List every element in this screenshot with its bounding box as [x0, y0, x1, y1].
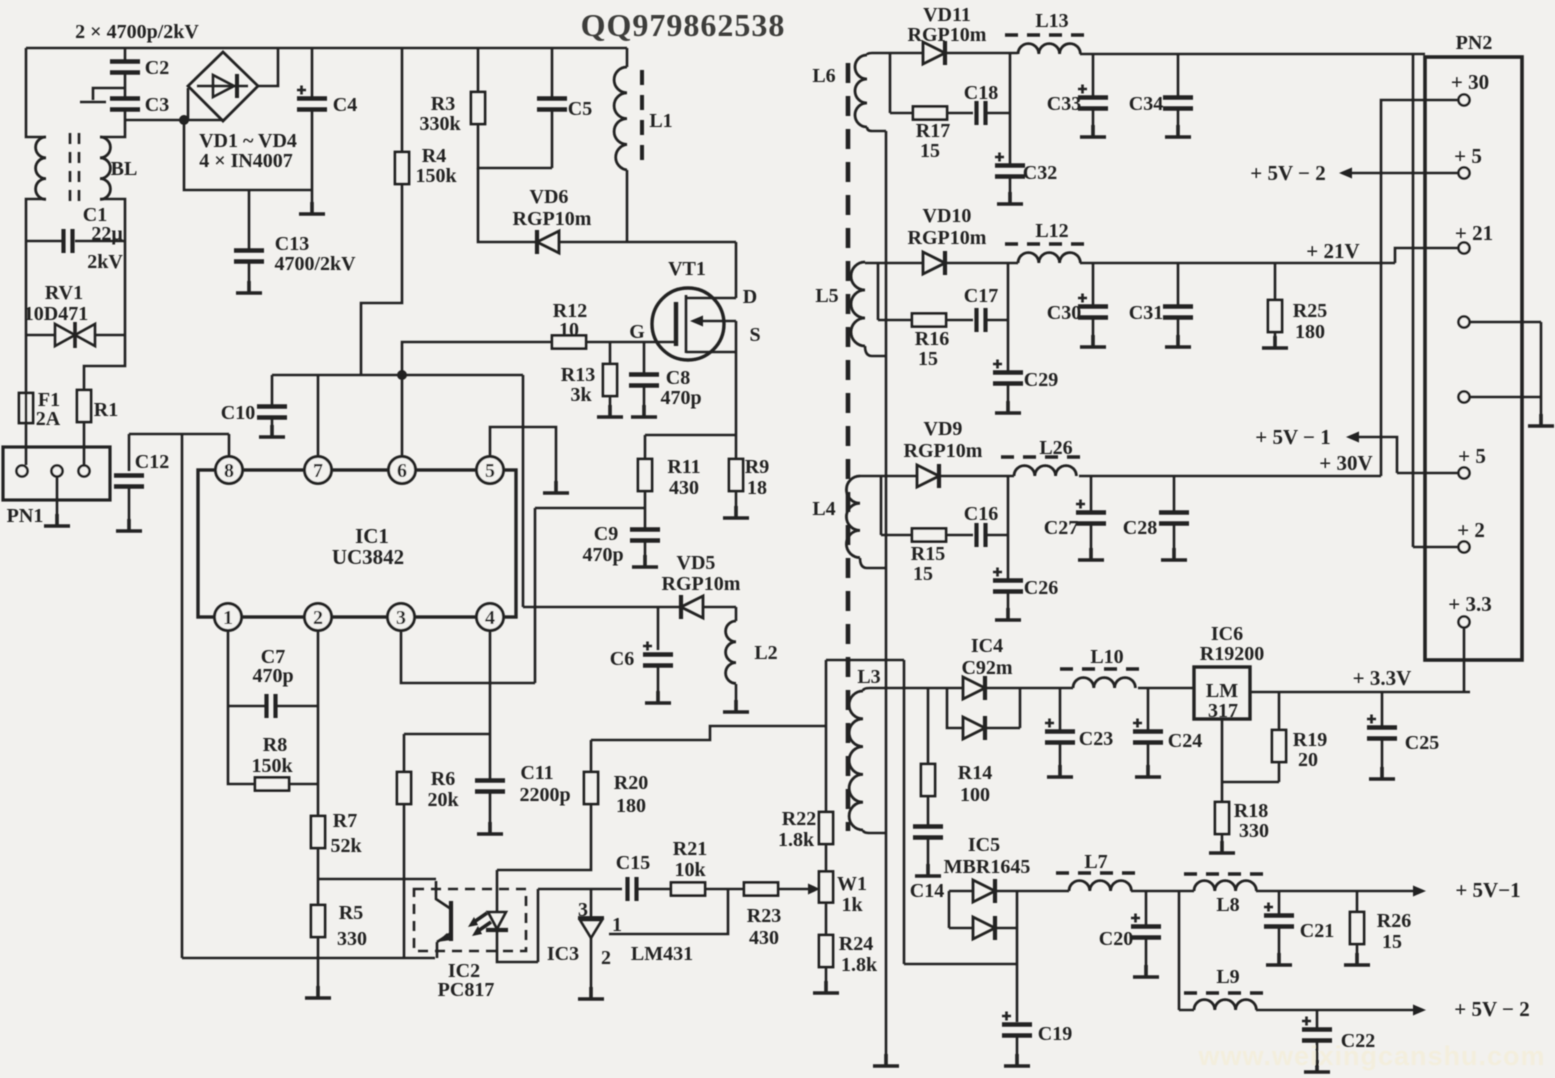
- capacitor C24: [1147, 688, 1150, 731]
- svg-text:L12: L12: [1035, 220, 1068, 242]
- capacitor C20: [1145, 891, 1148, 926]
- resistor R13: [609, 342, 612, 364]
- svg-text:R6: R6: [431, 768, 455, 790]
- resistor R3: [477, 48, 480, 92]
- capacitor C5: [551, 48, 554, 98]
- pin 6: [389, 457, 416, 484]
- svg-text:R24: R24: [839, 933, 873, 955]
- optocoupler IC2 PC817 dashed box: [414, 889, 526, 951]
- wire: +5V-1 takeoff: [1359, 437, 1458, 473]
- light arrows of IC2: [474, 913, 491, 931]
- wire: R11 bottom to C9 row: [535, 491, 645, 529]
- svg-text:PN1: PN1: [7, 505, 44, 527]
- svg-text:UC3842: UC3842: [332, 545, 404, 569]
- ground below C12: [116, 519, 142, 531]
- resistor R8: [255, 778, 289, 791]
- ground below C28: [1161, 548, 1187, 560]
- ground below C9: [632, 555, 658, 567]
- wire: L7 output row: [1131, 890, 1194, 893]
- capacitor C23: [1059, 688, 1062, 731]
- capacitor C34: [1177, 54, 1180, 97]
- wire: bridge + output riser: [258, 48, 278, 86]
- svg-text:C33: C33: [1047, 93, 1081, 115]
- svg-text:8: 8: [224, 460, 234, 482]
- capacitor C9: [630, 530, 660, 541]
- capacitor C18: [977, 101, 986, 125]
- resistor R7: [311, 816, 325, 848]
- svg-text:LM431: LM431: [631, 943, 693, 965]
- svg-text:330: 330: [337, 928, 367, 950]
- resistor R9: [729, 459, 743, 491]
- capacitor C12: [128, 434, 131, 471]
- ground below C20: [1133, 965, 1159, 977]
- transformer core dashes: [846, 63, 851, 831]
- ground below C26: [995, 608, 1021, 620]
- svg-text:C19: C19: [1038, 1023, 1072, 1045]
- svg-text:C6: C6: [610, 648, 634, 670]
- wire: L6 bottom to bus: [867, 127, 886, 131]
- wire: VD6 to drain riser: [559, 242, 736, 298]
- wire: VCC row pin7: [272, 374, 523, 377]
- pin 7: [305, 457, 332, 484]
- PN2 pin +21: [1459, 243, 1470, 254]
- svg-text:C9: C9: [594, 523, 618, 545]
- svg-text:+ 2: + 2: [1457, 518, 1485, 542]
- svg-text:L5: L5: [815, 285, 838, 307]
- svg-text:VD1 ~ VD4: VD1 ~ VD4: [199, 130, 297, 152]
- capacitor C10: [271, 375, 274, 406]
- svg-text:R25: R25: [1293, 300, 1327, 322]
- wire: R7 to R5 with feedback row: [318, 848, 436, 905]
- ground below C4: [299, 202, 325, 214]
- ground below C31: [1165, 335, 1191, 347]
- wire: L9 feed riser: [1179, 891, 1194, 1010]
- resistor R26: [1356, 891, 1359, 912]
- wire: R15 to C16: [946, 534, 973, 537]
- svg-text:1k: 1k: [841, 894, 863, 916]
- svg-text:L7: L7: [1084, 851, 1107, 873]
- winding L3: [849, 691, 863, 830]
- svg-text:2kV: 2kV: [87, 251, 123, 273]
- svg-text:RGP10m: RGP10m: [908, 24, 987, 46]
- svg-text:RGP10m: RGP10m: [662, 573, 741, 595]
- ground below C14: [915, 864, 941, 876]
- PN2 pin +2: [1459, 542, 1470, 553]
- inductor L26: [1014, 466, 1076, 476]
- wire: LM317 output +3.3V row: [1250, 691, 1470, 694]
- wire: L6 top row to VD11: [867, 53, 923, 55]
- ground below C24: [1135, 765, 1161, 777]
- svg-text:+ 5V−1: + 5V−1: [1455, 878, 1520, 902]
- wire: pin 5 ground route: [490, 427, 556, 491]
- wire: L5 bottom to bus: [865, 346, 886, 356]
- LED of IC2: [496, 870, 499, 912]
- svg-text:VD10: VD10: [923, 205, 972, 227]
- wire: gate row from dot: [402, 342, 552, 375]
- winding L6: [855, 55, 867, 127]
- svg-text:C92m: C92m: [961, 657, 1012, 679]
- resistor R6: [397, 772, 411, 804]
- dual diode IC4 lower branch: [947, 688, 963, 728]
- pin 2: [305, 604, 332, 631]
- svg-text:R20: R20: [614, 772, 648, 794]
- ground below R26: [1344, 953, 1370, 965]
- capacitor C19: [1002, 1012, 1032, 1036]
- svg-text:C26: C26: [1024, 577, 1058, 599]
- wire: TL431 cathode row: [538, 888, 622, 891]
- svg-text:1.8k: 1.8k: [778, 829, 815, 851]
- wire: left input rail upper: [26, 48, 46, 137]
- capacitor C33: [1092, 54, 1095, 97]
- svg-text:C12: C12: [135, 451, 169, 473]
- svg-text:+ 5V − 2: + 5V − 2: [1250, 161, 1325, 185]
- svg-text:C23: C23: [1079, 728, 1113, 750]
- wire: pin 3 riser to row: [401, 631, 535, 683]
- ground below IC3: [578, 987, 604, 999]
- resistor R14: [927, 688, 930, 764]
- svg-text:R19: R19: [1293, 729, 1327, 751]
- inductor L2: [726, 621, 736, 683]
- capacitor C4: [311, 48, 314, 98]
- svg-text:+ 5V − 2: + 5V − 2: [1454, 997, 1529, 1021]
- wire: primary bottom bus: [182, 957, 435, 960]
- inductor L12: [1018, 253, 1080, 263]
- svg-text:C14: C14: [910, 880, 944, 902]
- wire: R23 to W1 wiper: [778, 888, 808, 891]
- svg-text:PC817: PC817: [438, 979, 495, 1001]
- capacitor C25: [1381, 692, 1384, 727]
- wire: +21V row: [1080, 248, 1458, 263]
- svg-text:R18: R18: [1234, 800, 1268, 822]
- wire: R24 to ground: [825, 967, 828, 991]
- diode VD6 RGP10m: [537, 230, 559, 254]
- wire: IC5 output row to L7: [995, 890, 1069, 893]
- svg-text:+ 30V: + 30V: [1319, 451, 1372, 475]
- svg-text:L26: L26: [1039, 437, 1072, 459]
- svg-text:VD9: VD9: [924, 418, 963, 440]
- svg-text:2200p: 2200p: [519, 784, 570, 806]
- wire: L3 feedback top link: [591, 660, 826, 740]
- diode VD11 RGP10m: [923, 41, 945, 65]
- wire: R6 down to bus: [403, 804, 406, 958]
- wire: C16 to post node: [986, 476, 1008, 580]
- wire: pin 2 column: [317, 631, 320, 816]
- capacitor C21: [1278, 891, 1281, 915]
- wire: pin1 column to R8: [228, 706, 254, 784]
- wire: VD11 out to L13: [945, 52, 1018, 55]
- svg-text:C21: C21: [1300, 920, 1334, 942]
- svg-text:15: 15: [918, 348, 938, 370]
- svg-text:7: 7: [313, 460, 323, 482]
- svg-text:R22: R22: [782, 808, 816, 830]
- svg-text:C27: C27: [1044, 517, 1078, 539]
- svg-text:52k: 52k: [330, 835, 362, 857]
- wire: BL left bottom: [26, 199, 46, 241]
- resistor R18: [1215, 802, 1229, 834]
- svg-text:R19200: R19200: [1200, 643, 1264, 665]
- ground below C10: [259, 425, 285, 437]
- svg-text:180: 180: [1295, 321, 1325, 343]
- wire: R20 bottom to LED anode: [497, 804, 591, 870]
- ground below C23: [1047, 765, 1073, 777]
- svg-text:+ 21V: + 21V: [1306, 239, 1359, 263]
- svg-text:10: 10: [559, 319, 579, 341]
- wire: L13 output row: [1080, 53, 1425, 56]
- wire: long drop to primary ground bus: [181, 434, 184, 958]
- svg-text:+ 30: + 30: [1451, 70, 1489, 94]
- svg-text:BL: BL: [111, 158, 138, 180]
- wire: R4 branch into VCC row: [361, 184, 402, 375]
- capacitor C2: [124, 48, 127, 61]
- svg-text:C3: C3: [145, 94, 169, 116]
- diode VD9 RGP10m: [917, 464, 939, 488]
- inductor L9: [1194, 1000, 1256, 1010]
- svg-text:VD11: VD11: [923, 4, 971, 26]
- capacitor C22: [1316, 1010, 1319, 1029]
- wire: C17 to post node: [986, 263, 1008, 372]
- svg-text:VD6: VD6: [530, 186, 569, 208]
- svg-text:C10: C10: [221, 402, 255, 424]
- wire: L5 top row: [865, 262, 923, 265]
- capacitor C28: [1173, 476, 1176, 512]
- svg-text:IC6: IC6: [1211, 623, 1243, 645]
- L1 core dashes: [640, 70, 644, 166]
- resistor R24: [825, 902, 828, 935]
- svg-text:22μ: 22μ: [91, 223, 123, 245]
- wire: L3 alcove link: [826, 660, 904, 688]
- wire: C3 to bridge AC node: [125, 110, 224, 120]
- svg-text:L8: L8: [1216, 894, 1239, 916]
- svg-text:R13: R13: [561, 364, 595, 386]
- connector PN2: [1425, 57, 1522, 660]
- svg-text:IC5: IC5: [968, 834, 1000, 856]
- svg-text:R17: R17: [916, 120, 950, 142]
- capacitor C11: [475, 781, 505, 792]
- svg-text:2 × 4700p/2kV: 2 × 4700p/2kV: [75, 21, 199, 43]
- dual schottky IC5 lower: [949, 927, 973, 930]
- svg-text:C15: C15: [616, 852, 650, 874]
- pin 3: [388, 604, 415, 631]
- svg-text:+ 21: + 21: [1455, 221, 1493, 245]
- svg-text:C2: C2: [145, 57, 169, 79]
- inductor BL left winding: [36, 137, 46, 199]
- wire: VCC branch down to VD5 row: [522, 375, 525, 607]
- inductor BL right winding: [100, 120, 125, 137]
- wire: +2 rail riser: [1413, 54, 1458, 547]
- svg-text:L13: L13: [1035, 10, 1068, 32]
- resistor R4: [401, 48, 404, 152]
- svg-text:VD5: VD5: [677, 552, 716, 574]
- svg-text:C16: C16: [964, 503, 998, 525]
- wire: +5V-2 takeoff: [1352, 172, 1458, 175]
- svg-text:VT1: VT1: [668, 258, 706, 280]
- resistor R21: [671, 883, 705, 896]
- svg-text:4: 4: [485, 607, 495, 629]
- ground below PN1 middle pin: [56, 477, 59, 524]
- ground below C19: [1004, 1054, 1030, 1066]
- resistor R16: [912, 314, 946, 327]
- diode VD10 RGP10m: [923, 251, 945, 275]
- ground below C27: [1078, 548, 1104, 560]
- BL core dashes: [70, 133, 79, 203]
- wire: C19 riser: [1016, 891, 1019, 1022]
- svg-text:R26: R26: [1377, 910, 1411, 932]
- ground below C22: [1304, 1060, 1330, 1072]
- ground below R25: [1262, 336, 1288, 348]
- wire: R6 top row: [404, 734, 490, 772]
- ground below R9: [723, 506, 749, 518]
- svg-text:20: 20: [1298, 749, 1318, 771]
- wire: +3.3 pin drop: [1463, 628, 1466, 692]
- svg-text:C34: C34: [1129, 93, 1163, 115]
- winding L5: [851, 262, 865, 346]
- transistor VT1 MOSFET: [652, 288, 724, 360]
- wire: pin 6 riser: [401, 375, 404, 456]
- svg-text:L6: L6: [812, 65, 835, 87]
- svg-text:L4: L4: [812, 498, 835, 520]
- ground below C30: [1080, 335, 1106, 347]
- capacitor C30: [1092, 263, 1095, 306]
- svg-text:R8: R8: [263, 734, 287, 756]
- inductor L8: [1194, 881, 1256, 891]
- wire: C9 row riser down to pin3 row: [534, 508, 537, 683]
- svg-text:10D471: 10D471: [24, 303, 88, 325]
- capacitor C32: [995, 153, 1025, 177]
- capacitor C13: [248, 190, 251, 250]
- svg-text:2: 2: [601, 947, 611, 969]
- ground below C34: [1165, 125, 1191, 137]
- svg-text:C28: C28: [1123, 517, 1157, 539]
- wire: C12 row to pin 8: [129, 434, 229, 456]
- svg-text:4700/2kV: 4700/2kV: [274, 253, 356, 275]
- svg-text:2: 2: [313, 607, 323, 629]
- svg-text:2A: 2A: [36, 408, 61, 430]
- svg-text:RGP10m: RGP10m: [908, 227, 987, 249]
- svg-text:C8: C8: [666, 367, 690, 389]
- wire: pin 1 column: [227, 631, 230, 706]
- svg-text:C29: C29: [1024, 369, 1058, 391]
- wire: +30V row: [1079, 100, 1458, 476]
- svg-text:L9: L9: [1216, 966, 1239, 988]
- ground below C21: [1266, 953, 1292, 965]
- wire: primary top +310V rail: [26, 47, 627, 50]
- svg-text:1: 1: [612, 914, 622, 936]
- svg-text:470p: 470p: [660, 387, 701, 409]
- shunt regulator IC3 LM431: [590, 889, 593, 918]
- inductor L10: [1073, 678, 1135, 688]
- diode VD5 RGP10m: [681, 595, 703, 619]
- ground below C8: [631, 405, 657, 417]
- svg-text:R4: R4: [422, 145, 446, 167]
- svg-text:L10: L10: [1090, 646, 1123, 668]
- wire: blank pins common: [1470, 322, 1541, 424]
- inductor L13: [1018, 44, 1080, 54]
- wire: R5 to ground: [317, 937, 320, 996]
- resistor R25: [1274, 263, 1277, 300]
- wire: R3 bottom row to C5: [478, 124, 552, 168]
- wire: bridge left vertex drop: [187, 88, 190, 120]
- svg-text:www.weixingcanshu.com: www.weixingcanshu.com: [1197, 1041, 1545, 1071]
- capacitor C14: [927, 796, 930, 826]
- pin 1: [215, 604, 242, 631]
- svg-text:+ 3.3: + 3.3: [1448, 592, 1491, 616]
- svg-text:QQ979862538: QQ979862538: [581, 7, 786, 43]
- svg-text:470p: 470p: [252, 665, 293, 687]
- wire: winding tap drop: [904, 688, 1017, 964]
- svg-text:150k: 150k: [251, 755, 293, 777]
- svg-text:LM: LM: [1206, 680, 1238, 702]
- ground below C29: [995, 401, 1021, 413]
- resistor R11: [638, 459, 652, 491]
- regulator IC6 LM317: [1194, 667, 1250, 719]
- capacitor C1: [26, 240, 125, 243]
- svg-text:RV1: RV1: [45, 282, 83, 304]
- IC1 UC3842 box: [198, 470, 516, 617]
- varistor RV1 10D471: [26, 334, 125, 337]
- pin 4: [477, 604, 504, 631]
- svg-text:R16: R16: [915, 328, 949, 350]
- fuse F1 2A: [25, 335, 28, 393]
- wire: VD10 out to L12: [945, 262, 1018, 265]
- svg-text:C30: C30: [1047, 302, 1081, 324]
- wire: R12 to gate: [586, 341, 676, 344]
- bridge rectifier VD1~VD4: [188, 52, 258, 121]
- capacitor C15: [628, 877, 637, 901]
- wire: snubber down to VD6 row: [478, 168, 537, 242]
- resistor R20: [590, 740, 593, 772]
- connector PN1: [3, 447, 110, 500]
- dual diode IC4 C92m upper: [963, 676, 985, 700]
- wire: L4 bottom to bus: [860, 558, 886, 568]
- dual schottky IC5 MBR1645 upper: [949, 891, 973, 928]
- wire: mid-tap stub between C2 and C3: [80, 88, 125, 102]
- capacitor C31: [1177, 263, 1180, 306]
- svg-text:C24: C24: [1168, 730, 1202, 752]
- ground below C33: [1080, 125, 1106, 137]
- ground below R13: [597, 405, 623, 417]
- svg-text:18: 18: [747, 477, 767, 499]
- inductor L1: [626, 48, 629, 67]
- ground below C11: [477, 822, 503, 834]
- wire: L5 snubber riser: [878, 263, 912, 320]
- svg-text:C17: C17: [964, 285, 998, 307]
- wire: pin 4 riser to C11: [489, 631, 492, 780]
- capacitor C7: [228, 705, 318, 708]
- capacitor C29: [993, 360, 1023, 384]
- capacitor C16: [977, 523, 986, 547]
- wire: rails down to RV1: [26, 241, 125, 335]
- svg-text:430: 430: [669, 477, 699, 499]
- wire: C18 to post node: [986, 53, 1010, 165]
- svg-text:C32: C32: [1023, 162, 1057, 184]
- winding L4: [846, 476, 860, 558]
- svg-text:R3: R3: [431, 93, 455, 115]
- wire: L4 snubber riser: [881, 476, 912, 535]
- wire: VD9 out to L26: [939, 475, 1014, 478]
- wire: secondary common bus: [885, 131, 888, 1064]
- resistor R1: [84, 335, 125, 390]
- svg-text:3: 3: [578, 899, 588, 921]
- svg-text:100: 100: [960, 784, 990, 806]
- wire: C2-C3 link: [124, 73, 127, 98]
- wire: IC4 output row to LM317: [985, 687, 1194, 690]
- wire: +5V-2 output row: [1256, 1009, 1413, 1012]
- potentiometer W1: [825, 844, 828, 872]
- resistor R5: [311, 905, 325, 937]
- capacitor C8: [643, 342, 646, 374]
- wire: L4 top row: [860, 475, 917, 478]
- ground below L2: [723, 700, 749, 712]
